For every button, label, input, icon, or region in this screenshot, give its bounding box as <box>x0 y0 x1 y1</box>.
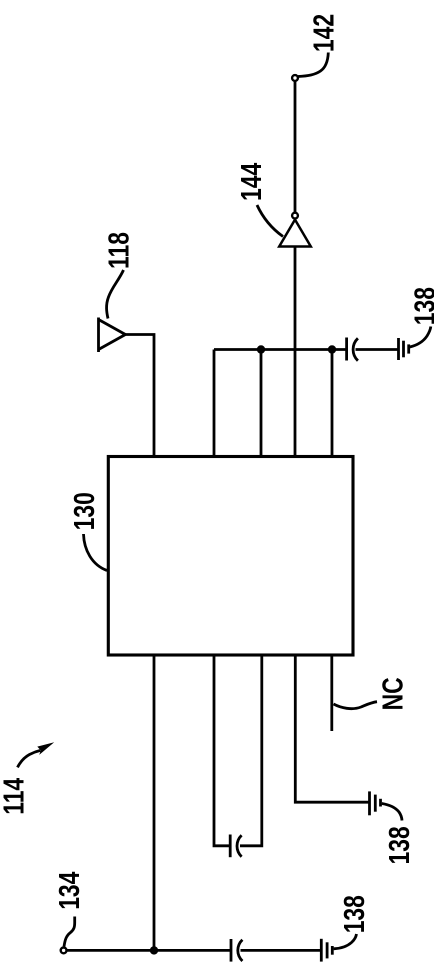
svg-text:114: 114 <box>0 777 30 814</box>
junction dot <box>257 345 265 353</box>
wire cap to ground <box>241 949 321 952</box>
terminal 142 <box>292 75 298 81</box>
capacitor 138 (bottom) <box>231 939 242 962</box>
bottom rail wire <box>67 949 231 952</box>
leader 138 top right <box>410 327 431 348</box>
leader 142 <box>298 53 328 77</box>
svg-text:118: 118 <box>102 232 135 269</box>
inverter 144 <box>279 213 311 247</box>
leader 118 <box>107 270 124 319</box>
NC stub <box>330 655 333 731</box>
ground (middle right) <box>370 791 381 815</box>
wire pin2 bottom <box>214 655 230 846</box>
wire pin3 top <box>260 350 263 457</box>
svg-text:142: 142 <box>307 14 340 52</box>
wire top bus <box>214 348 347 351</box>
junction dot <box>150 946 158 954</box>
svg-text:NC: NC <box>376 677 409 710</box>
ground (bottom) <box>321 939 332 962</box>
block 130 <box>108 457 353 656</box>
capacitor 138 (top right) <box>347 338 358 361</box>
leader 144 <box>257 205 283 237</box>
wire 142 to inverter <box>294 82 297 213</box>
svg-text:138: 138 <box>408 287 434 325</box>
leader 138 bottom <box>334 934 357 949</box>
wire antenna to block <box>125 335 154 457</box>
wire inverter to block <box>294 247 297 457</box>
arrow leader for 114 <box>18 742 55 767</box>
wire pin5 top <box>331 350 334 457</box>
svg-text:134: 134 <box>52 871 85 910</box>
wire cap to ground <box>356 348 398 351</box>
svg-text:144: 144 <box>234 162 267 201</box>
ground (top right) <box>399 338 409 360</box>
leader 134 <box>64 917 75 947</box>
antenna 118 <box>99 318 126 353</box>
svg-text:138: 138 <box>382 826 415 864</box>
terminal 134 <box>61 948 67 954</box>
svg-text:130: 130 <box>67 492 100 530</box>
leader NC <box>334 702 378 709</box>
leader 130 <box>84 534 108 571</box>
wire pin2 top <box>213 350 216 457</box>
junction dot <box>328 345 336 353</box>
wire cap to pin3 <box>240 655 262 846</box>
wire pin4 bottom <box>295 655 369 802</box>
wire pin1 bottom <box>153 655 156 950</box>
leader 138 middle right <box>382 804 402 821</box>
capacitor (between pins) <box>230 835 241 858</box>
svg-text:138: 138 <box>337 895 370 933</box>
